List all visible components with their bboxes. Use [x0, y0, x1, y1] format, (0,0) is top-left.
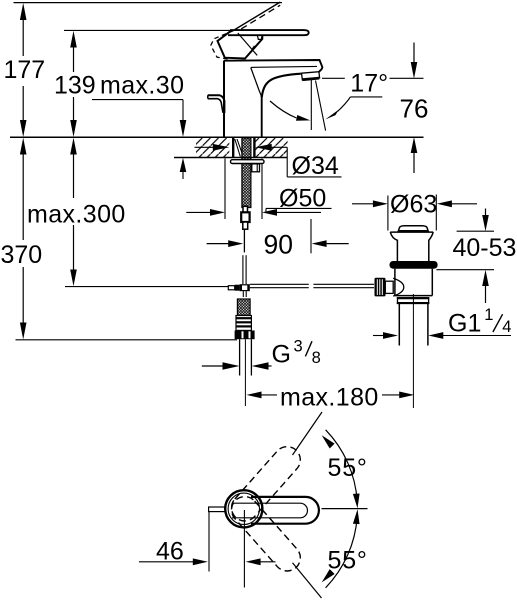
dimension Ø34 [195, 144, 342, 180]
valve body [395, 269, 432, 296]
G3/8 tail pipe [240, 339, 252, 375]
dashed lever rotated down 55 [226, 491, 306, 576]
dimension Ø63 [352, 191, 477, 231]
pop-up linkage rod to drain [250, 284, 374, 287]
hatching right of hole [255, 138, 287, 157]
55 degree radial line lower [293, 563, 322, 598]
wire pop-up rod level line (max.300 bottom) [65, 286, 229, 288]
pop-up knob [375, 278, 394, 297]
wire top reference line at lever raised tip [14, 2, 283, 4]
supply hose thin rod double line [243, 255, 246, 284]
svg-text:G1: G1 [448, 310, 481, 338]
svg-text:8: 8 [312, 349, 321, 367]
svg-text:Ø34: Ø34 [292, 152, 339, 180]
dimension max.30 counter thickness [92, 71, 186, 179]
handle base solid [218, 30, 263, 58]
svg-text:4: 4 [502, 318, 511, 336]
faucet right wall [261, 96, 263, 137]
upper 55 arc [326, 430, 358, 501]
dimension max.300 [27, 138, 126, 287]
handle raised position solid edge [235, 2, 281, 30]
threaded rod with knurl [242, 138, 251, 208]
svg-text:17°: 17° [350, 69, 388, 97]
top view lever outline [251, 497, 319, 524]
dimension G1 1/4 [373, 306, 511, 339]
horizontal reference at lever tip [322, 508, 368, 510]
hose connector block [241, 212, 249, 222]
svg-text:177: 177 [4, 56, 46, 84]
svg-text:139: 139 [54, 71, 96, 99]
wire counter top surface [10, 136, 424, 138]
svg-text:3: 3 [294, 337, 303, 355]
handle raised position dashed edge [241, 5, 280, 29]
lower 55 arc [326, 517, 358, 588]
wire counter bottom surface [174, 157, 287, 159]
supply hose pull rod single line [243, 229, 245, 252]
svg-text:55°: 55° [328, 454, 368, 482]
dimension 177 [4, 3, 46, 137]
dimension G3/8 [202, 337, 321, 370]
dashed lever rotated up 55 [226, 441, 306, 526]
dimension 40-53 [436, 209, 516, 304]
svg-text:max.30: max.30 [100, 71, 184, 99]
hose connector lower stub [243, 222, 248, 229]
55 degree radial line upper [293, 412, 323, 455]
svg-text:G: G [272, 340, 291, 368]
hose connector upper stub [243, 206, 248, 212]
svg-text:55°: 55° [328, 547, 368, 575]
handle base dashed rotated outline [211, 31, 234, 60]
hatching left of hole [196, 138, 229, 157]
spout underside [262, 74, 301, 97]
svg-text:Ø50: Ø50 [279, 184, 326, 212]
svg-text:1: 1 [484, 306, 493, 324]
dimension 139 [54, 31, 96, 137]
drain valve pop-up waste [390, 226, 433, 261]
top view valve circle inner ring [228, 493, 259, 524]
dimension Ø50 [186, 159, 331, 220]
dimension 76 [390, 43, 429, 174]
faucet lever horizontal [228, 30, 309, 39]
handle base crease line [238, 33, 257, 55]
valve inner ball housing [393, 278, 404, 296]
dimension 46 [139, 510, 276, 588]
drain plug cap [398, 226, 428, 231]
lever pivot nub [257, 35, 262, 39]
drain tail pipe [399, 304, 428, 346]
hose ribbed section [236, 316, 251, 331]
17 degree spray angle annotation [270, 78, 382, 130]
pop-up rod handle behind faucet [208, 95, 225, 113]
svg-text:76: 76 [400, 94, 429, 124]
faucet spout cap underside line [251, 66, 317, 67]
svg-text:max.300: max.300 [27, 201, 126, 229]
tee lower stub [243, 291, 246, 297]
drain centerline [412, 294, 414, 408]
waste flange [390, 231, 433, 233]
hose knurled section [237, 299, 250, 316]
mounting washer under counter [231, 160, 265, 164]
wire hose end reference line (370 bottom) [16, 339, 238, 341]
faucet body front edge [251, 68, 262, 98]
svg-text:max.180: max.180 [280, 384, 379, 412]
rubber gasket [390, 261, 438, 269]
dimension max.180 [247, 384, 415, 412]
dimension 370 [1, 138, 43, 340]
svg-text:40-53: 40-53 [453, 234, 517, 262]
svg-text:46: 46 [156, 537, 184, 565]
top view lever inner edge [232, 503, 307, 518]
faucet centerline below [244, 339, 246, 406]
svg-text:Ø63: Ø63 [390, 191, 437, 219]
aerator outlet [302, 72, 320, 80]
pop-up rod tee block [228, 284, 250, 291]
valve outlet nut [397, 298, 430, 304]
top view valve circle [225, 490, 262, 527]
wire reference line at lever top [64, 29, 233, 31]
faucet body outline [224, 60, 322, 137]
svg-text:90: 90 [264, 229, 293, 259]
mounting bracket tab [252, 164, 260, 172]
dimension 90 [207, 219, 349, 259]
faucet shank in counter hole [233, 138, 254, 157]
hose hex nut [235, 331, 255, 340]
svg-text:370: 370 [1, 241, 43, 269]
top view lever end tab [209, 507, 226, 512]
